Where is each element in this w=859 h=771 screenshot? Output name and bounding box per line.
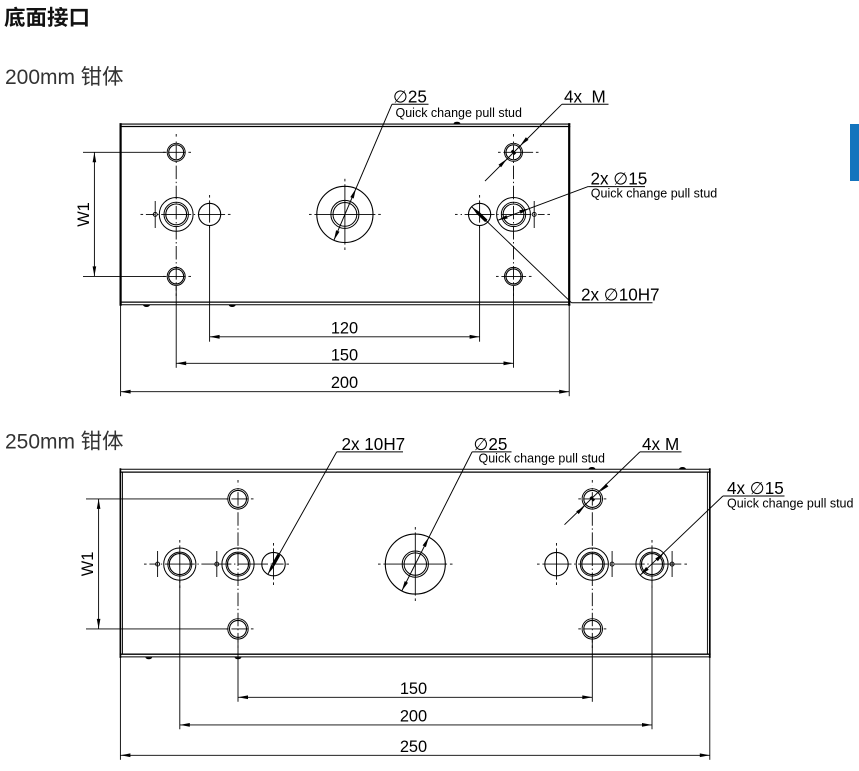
edge notch bottom mid xyxy=(229,305,236,307)
pull stud hole D15 B2 xyxy=(576,548,608,580)
svg-text:150: 150 xyxy=(400,680,427,698)
centerline mid row left group xyxy=(141,213,144,215)
dimension 150 drawing2 xyxy=(238,696,592,698)
dimension 250 drawing2 xyxy=(120,754,709,756)
crosshair bottom-right M hole xyxy=(578,628,581,630)
dimension 200 xyxy=(121,391,570,393)
extension line col C2 below xyxy=(479,226,481,342)
threaded hole M top-right xyxy=(505,143,523,161)
centerline mid row center hole xyxy=(309,213,312,215)
center hole D25 drawing2 xyxy=(385,534,445,594)
extension line left edge below xyxy=(120,305,122,397)
svg-text:W1: W1 xyxy=(75,202,93,227)
dimension 150 xyxy=(176,362,513,364)
threaded hole M bottom-left xyxy=(228,619,248,639)
svg-text:Quick change pull stud: Quick change pull stud xyxy=(479,452,606,466)
centerline center hole vertical xyxy=(344,179,346,182)
centerline column A xyxy=(179,540,181,543)
svg-text:W1: W1 xyxy=(79,552,97,577)
hole D10H7 right xyxy=(469,203,491,225)
edge notch bottom left xyxy=(145,657,152,659)
leader and label 4x D15 drawing2 xyxy=(640,496,723,575)
svg-text:120: 120 xyxy=(331,320,358,338)
centerline column A2 xyxy=(651,540,653,543)
edge notch top right xyxy=(679,467,686,469)
svg-text:2x ∅15: 2x ∅15 xyxy=(591,170,648,189)
extension line left edge below xyxy=(119,657,121,760)
dowel mark left xyxy=(216,551,218,577)
dimension W1 drawing2 xyxy=(86,498,228,500)
edge notch bottom left xyxy=(143,305,150,307)
edge notch bottom mid xyxy=(235,657,242,659)
extension line right edge below xyxy=(568,305,570,397)
leader and label D25 drawing2 xyxy=(402,452,472,591)
pull stud hole D15 left xyxy=(159,198,193,232)
extension line col A2 below xyxy=(513,286,515,368)
svg-text:M: M xyxy=(592,87,606,106)
extension line col A2 below xyxy=(651,581,653,730)
pull stud hole D15 B xyxy=(222,548,254,580)
blue side tab xyxy=(850,124,859,181)
svg-text:200: 200 xyxy=(331,374,358,392)
crosshair bottom-right M hole xyxy=(496,275,499,277)
centerline column C xyxy=(273,543,275,546)
svg-text:4x: 4x xyxy=(564,87,583,106)
svg-text:250mm: 250mm xyxy=(5,431,75,454)
leader and label 2x D15 drawing1 xyxy=(498,187,588,221)
pull stud hole D15 right xyxy=(497,198,531,232)
centerline column B2 xyxy=(591,480,593,483)
dowel mark left xyxy=(154,201,156,228)
svg-text:∅25: ∅25 xyxy=(393,87,427,106)
hole 10H7 left xyxy=(262,552,285,575)
crosshair top-left M hole xyxy=(163,151,166,153)
page title xyxy=(4,7,24,27)
svg-text:150: 150 xyxy=(331,346,358,364)
centerline column B xyxy=(237,480,239,483)
leader and label 4x M drawing1 xyxy=(485,104,562,181)
pull stud hole D15 A xyxy=(164,548,196,580)
svg-text:4x: 4x xyxy=(642,435,661,454)
plate outline 200mm body xyxy=(120,123,571,125)
dimension 120 xyxy=(210,336,480,338)
extension line col A below xyxy=(179,581,181,730)
extension line right edge below xyxy=(709,657,711,760)
centerline mid row center hole xyxy=(378,563,381,565)
edge notch top xyxy=(454,122,461,124)
crosshair top-left M hole xyxy=(226,498,229,500)
pull stud hole D15 A2 xyxy=(636,548,668,580)
threaded hole M top-left xyxy=(167,143,185,161)
centerline mid row right group xyxy=(537,563,540,565)
crosshair top-right M hole xyxy=(578,498,581,500)
svg-text:Quick change pull stud: Quick change pull stud xyxy=(591,187,718,201)
dowel mark far-left xyxy=(157,551,159,577)
edge notch top left xyxy=(589,467,596,469)
extension line col B2 below xyxy=(591,640,593,702)
dowel mark far-right xyxy=(671,551,673,577)
dimension W1 drawing1 xyxy=(83,151,167,153)
centerline column A2 xyxy=(513,134,515,137)
centerline column C2 xyxy=(479,195,481,198)
centerline column C xyxy=(209,195,211,198)
leader and label 2x D10H7 drawing1 xyxy=(472,207,572,303)
hole D10H7 left xyxy=(199,203,221,225)
dowel mark right xyxy=(533,201,535,228)
extension line col A below xyxy=(175,286,177,368)
hole 10H7 right xyxy=(545,552,568,575)
svg-text:2x 10H7: 2x 10H7 xyxy=(342,435,406,454)
centerline mid row left group xyxy=(144,563,147,565)
threaded hole M top-right xyxy=(582,489,602,509)
svg-text:M: M xyxy=(665,435,679,454)
dowel mark right xyxy=(611,551,613,577)
centerline column A xyxy=(175,134,177,137)
svg-text:2x ∅10H7: 2x ∅10H7 xyxy=(581,286,660,305)
centerline column C2 xyxy=(556,543,558,546)
extension line col C below xyxy=(209,226,211,342)
plate outline 250mm body xyxy=(120,468,711,470)
leader and label 2x 10H7 drawing2 xyxy=(268,452,337,575)
svg-text:200mm: 200mm xyxy=(5,66,75,89)
svg-text:200: 200 xyxy=(400,707,427,725)
extension line col B below xyxy=(237,640,239,702)
centerline center hole vertical xyxy=(414,527,416,530)
dimension 200 drawing2 xyxy=(180,724,652,726)
svg-text:4x ∅15: 4x ∅15 xyxy=(727,479,784,498)
svg-text:Quick change pull stud: Quick change pull stud xyxy=(396,106,523,120)
svg-text:250: 250 xyxy=(400,738,427,756)
crosshair top-right M hole xyxy=(498,151,501,153)
centerline mid row right group xyxy=(455,213,458,215)
threaded hole M bottom-left xyxy=(167,267,185,285)
center hole D25 xyxy=(317,186,373,242)
threaded hole M bottom-right xyxy=(582,619,602,639)
leader and label 4x M drawing2 xyxy=(565,452,640,525)
threaded hole M top-left xyxy=(228,489,248,509)
threaded hole M bottom-right xyxy=(505,267,523,285)
crosshair bottom-left M hole xyxy=(163,275,166,277)
svg-text:Quick change pull stud: Quick change pull stud xyxy=(727,497,854,511)
leader and label D25 drawing1 xyxy=(334,104,392,240)
crosshair bottom-left M hole xyxy=(226,628,229,630)
